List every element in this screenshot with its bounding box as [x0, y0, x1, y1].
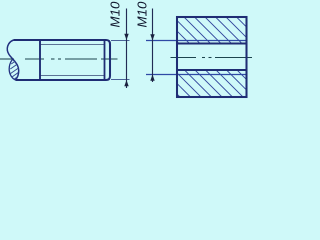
svg-text:M10: M10	[135, 1, 150, 27]
svg-text:M10: M10	[108, 1, 123, 27]
